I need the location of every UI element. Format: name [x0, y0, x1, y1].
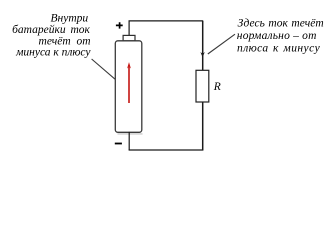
minus terminal label [115, 143, 122, 145]
battery B1: shadow edge [118, 133, 143, 135]
wire: top horizontal rail [129, 20, 204, 22]
leader line from left caption to battery [92, 59, 121, 84]
battery B1: body [115, 41, 142, 133]
resistor R [196, 70, 209, 102]
svg-text:R: R [213, 81, 221, 93]
wire: battery positive terminal up to top rail [128, 21, 130, 36]
leader line from right caption to top-right wire [208, 34, 235, 54]
plus terminal label [116, 22, 123, 28]
wire: right vertical rail up to resistor bottom [202, 102, 204, 151]
current arrow inside battery (red, pointing up) [128, 67, 130, 103]
battery B1: positive cap [123, 35, 135, 41]
svg-text:Здесь ток течёт нормально: Здесь ток течёт нормально – от плюса к м… [237, 18, 327, 55]
current direction arrowhead on right rail (pointing down) [200, 52, 204, 57]
wire: bottom horizontal rail [129, 149, 204, 151]
wire: battery negative terminal down [128, 132, 130, 150]
wire: right vertical rail down to resistor [202, 21, 204, 70]
